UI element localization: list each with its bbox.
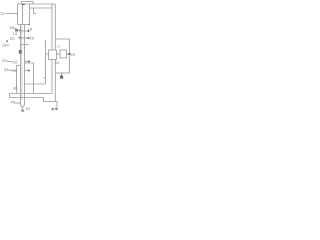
svg-text:26: 26 (30, 36, 35, 41)
leader line 28 (6, 44, 10, 46)
small blob above 28 (6, 40, 8, 42)
dark junction under bump (22, 3, 25, 5)
leader arrow bottom-left (15, 102, 21, 104)
pipe below valve outer (54, 60, 56, 102)
svg-text:42: 42 (26, 106, 31, 111)
junction dot right wire (68, 53, 70, 55)
junction dot B on column (19, 37, 21, 39)
leader line 34 (9, 69, 15, 72)
cap bump on vessel top (21, 2, 33, 5)
inner port drop (34, 8, 37, 14)
valve box U1 (49, 50, 57, 60)
wire U1 to U2 (57, 53, 61, 55)
port tick y70.5 (25, 70, 29, 72)
column inner faint line (21, 25, 23, 100)
svg-text:32: 32 (13, 60, 18, 65)
svg-text:38: 38 (13, 85, 18, 90)
stub to filled square (61, 73, 63, 76)
sense line vertical (45, 40, 47, 84)
drain bottom run (44, 101, 58, 103)
pipe inner line (51, 4, 53, 50)
port tick y44.5 (21, 44, 28, 46)
branch top wire (55, 38, 69, 40)
junction dot A on column (19, 29, 21, 31)
svg-text:34: 34 (4, 67, 9, 72)
port dot y70.5 (28, 70, 30, 72)
drain label blob (51, 108, 54, 110)
leader junction smudge (15, 29, 18, 31)
filled square component (60, 76, 63, 79)
elbow inner line (10, 93, 53, 95)
jacket top-left (17, 65, 21, 67)
svg-text:20: 20 (10, 36, 15, 41)
jacket top-right and right wall (25, 63, 34, 94)
svg-text:18: 18 (28, 27, 33, 32)
jacket left wall (16, 66, 18, 94)
leader line 30 (7, 61, 14, 62)
column left wall (20, 25, 22, 104)
pipe below valve inner (51, 60, 53, 94)
port dot y31 (27, 30, 29, 32)
component on column wall (19, 50, 22, 54)
bottom outlet blob (21, 110, 24, 112)
port dot y44.5 (27, 44, 29, 46)
inner tube side port (30, 7, 53, 9)
sense line to valve box (46, 53, 49, 55)
elbow left cap (9, 94, 11, 98)
vessel top edge (17, 3, 55, 5)
port tick y62 (25, 61, 29, 63)
svg-text:22: 22 (57, 45, 61, 49)
svg-text:12: 12 (0, 11, 5, 16)
leader arrow top-left (6, 13, 18, 15)
leader line 16 (13, 28, 19, 30)
pipe outer line (54, 4, 56, 50)
sense line bottom link (25, 83, 46, 85)
bottom outlet tube (21, 107, 23, 109)
drain outlet drop (56, 102, 58, 108)
svg-text:44: 44 (55, 60, 60, 65)
branch right wire (69, 39, 71, 73)
svg-text:24: 24 (71, 52, 75, 57)
elbow outer line (10, 97, 44, 99)
drain step down (43, 98, 45, 102)
vessel bottom edge (18, 24, 30, 26)
port dot y38 (27, 37, 29, 39)
column U bottom (21, 103, 25, 107)
port tick y38 (21, 37, 28, 39)
port tick y31 (21, 30, 28, 32)
svg-text:30: 30 (2, 58, 7, 63)
column right wall (24, 25, 26, 103)
inner tube right wall (28, 4, 30, 25)
branch bottom wire (55, 72, 69, 74)
drain end arrowhead (55, 108, 57, 110)
port dot y62 (28, 60, 30, 62)
box U2 (60, 50, 67, 58)
wire U2 to right vertical (67, 53, 70, 55)
tick on sense line (44, 77, 46, 79)
svg-text:40: 40 (11, 99, 16, 104)
inner tube left wall (22, 4, 24, 25)
vessel left wall (17, 4, 19, 25)
